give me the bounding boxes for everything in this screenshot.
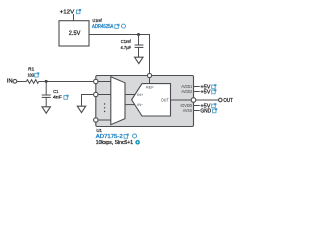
svg-text:OUT: OUT — [223, 98, 233, 104]
wire pin AIN1 to ground branch — [82, 95, 94, 107]
wire mux to ADC IN- — [125, 104, 135, 106]
mux channel dots — [104, 103, 105, 112]
wire pin2 to mux — [98, 94, 111, 96]
wire ADC OUT internal — [171, 99, 192, 101]
junction ref/C1ref — [137, 33, 140, 36]
AD7175-2 doc icon — [124, 134, 129, 139]
ADR4525A circle icon — [122, 24, 126, 28]
svg-text:10ksps, Sinc5+1: 10ksps, Sinc5+1 — [96, 140, 133, 146]
wire IN to R1 — [17, 81, 26, 83]
pin AIN1 circle — [94, 92, 98, 96]
wire REF internal — [149, 78, 151, 84]
svg-text:IN−: IN− — [137, 103, 143, 107]
voltage reference U1ref 2.5V box — [59, 21, 89, 46]
wire ref net down to REF pin — [149, 35, 151, 74]
svg-text:2.5V: 2.5V — [69, 31, 81, 37]
resistor R1 — [26, 80, 38, 84]
wire OUT external — [196, 99, 219, 101]
R1 doc icon — [35, 72, 40, 77]
IC U1 AD7175-2 body — [96, 76, 194, 127]
svg-text:4nF: 4nF — [53, 95, 62, 100]
svg-text:OUT: OUT — [161, 97, 169, 102]
pin OUT circle — [191, 98, 196, 103]
ground C1 — [42, 107, 50, 113]
ADC core block — [132, 84, 171, 116]
svg-text:4.7µF: 4.7µF — [121, 45, 132, 50]
svg-text:IN+: IN+ — [137, 93, 143, 97]
wire C1ref to ground — [138, 47, 140, 57]
ground AIN1 — [77, 106, 85, 112]
C1 doc icon — [64, 95, 69, 100]
capacitor C1ref — [135, 45, 144, 47]
wire +12V to U1ref box — [73, 14, 75, 21]
junction R1/C1 — [45, 80, 48, 83]
svg-text:U1: U1 — [96, 128, 102, 133]
svg-text:AD7175-2: AD7175-2 — [96, 134, 123, 140]
ADR4525A doc icon — [115, 24, 120, 29]
svg-text:U1ref: U1ref — [93, 18, 103, 23]
wire junction to C1ref — [138, 35, 140, 45]
svg-text:ADR4525A: ADR4525A — [92, 24, 114, 30]
wire mux to ADC IN+ — [125, 94, 135, 96]
svg-text:+5V: +5V — [200, 89, 210, 95]
wire C1 to ground — [45, 97, 47, 106]
svg-text:GND: GND — [200, 108, 211, 114]
wire reference output net — [89, 34, 150, 36]
capacitor C1 — [42, 95, 51, 97]
svg-text:REF: REF — [146, 85, 154, 89]
svg-text:AVSS: AVSS — [183, 108, 193, 113]
svg-text:10Ω: 10Ω — [28, 72, 35, 77]
AD7175-2 circle icon — [133, 134, 137, 138]
multiplexer inside U1 — [111, 77, 125, 125]
svg-text:C1: C1 — [53, 89, 58, 94]
terminal OUT — [219, 98, 223, 102]
pin AINx circle — [94, 118, 98, 122]
info dot icon — [136, 141, 139, 144]
pin AIN0 circle — [94, 79, 98, 83]
ground C1ref — [135, 57, 143, 63]
pin REF circle — [147, 73, 151, 77]
wire R1 to pin AIN0 — [39, 81, 94, 83]
svg-text:IN: IN — [7, 79, 13, 85]
svg-text:C1ref: C1ref — [121, 39, 132, 44]
wire junction to C1 — [45, 82, 47, 96]
+12V doc icon — [76, 9, 81, 14]
svg-text:AVDD2: AVDD2 — [181, 89, 193, 94]
wire pin1 to mux — [98, 81, 111, 83]
svg-text:R1: R1 — [28, 67, 34, 72]
svg-text:+12V: +12V — [60, 9, 75, 15]
wire pin3 to mux — [98, 119, 111, 121]
